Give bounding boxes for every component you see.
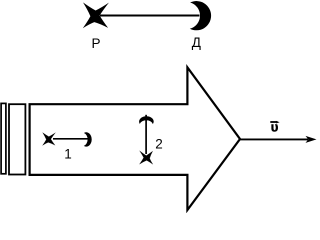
velocity vector line — [240, 138, 308, 140]
svg-text:2: 2 — [155, 137, 163, 152]
big block arrow — [30, 67, 240, 210]
wire: line from P to D — [100, 15, 200, 17]
bar 2 (second plate) — [9, 104, 25, 174]
crescent D (top figure) — [190, 1, 211, 30]
vector 2: line — [145, 115, 147, 154]
vector 1: mini star — [42, 133, 55, 146]
velocity vector arrowhead — [306, 136, 317, 143]
svg-text:Д: Д — [192, 35, 201, 50]
vector bar over v — [270, 121, 277, 123]
vector 1: mini crescent — [84, 132, 92, 146]
star P (top figure) — [83, 2, 109, 28]
svg-text:1: 1 — [64, 147, 72, 162]
vector 1: line — [53, 138, 89, 140]
bar 1 (left thin plate) — [1, 103, 6, 173]
vector 2: mini crescent (top, opens down) — [139, 116, 154, 124]
vector 2: mini star (bottom) — [139, 151, 152, 165]
svg-text:Р: Р — [92, 36, 101, 51]
